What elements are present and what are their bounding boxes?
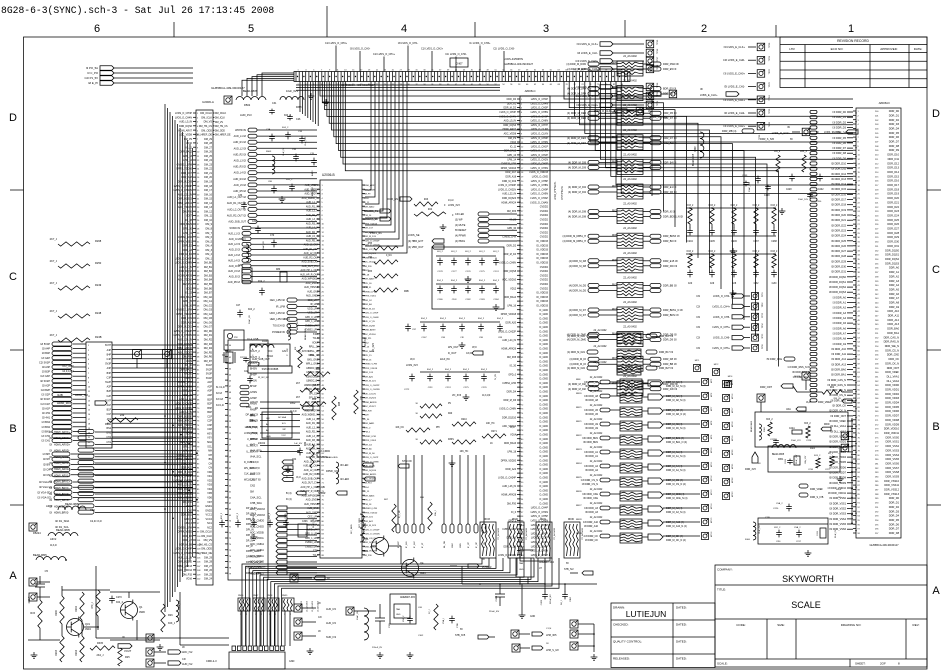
svg-text:I3I DDR_D10: I3I DDR_D10 (831, 163, 846, 166)
svg-text:LBMDC_B2: LBMDC_B2 (306, 376, 319, 378)
svg-text:DM_P28: DM_P28 (364, 410, 373, 412)
svg-text:63: 63 (229, 480, 231, 482)
svg-text:DDR_M_D4: DDR_M_D4 (503, 254, 516, 256)
svg-text:DDR_D13: DDR_D13 (887, 166, 899, 170)
svg-text:(4) MUTE: (4) MUTE (455, 224, 466, 227)
ground symbol bottom-left (31, 652, 38, 658)
svg-text:DDR_A2: DDR_A2 (889, 274, 900, 278)
DDR address resistor network head rows (567, 329, 673, 375)
svg-text:DDR_A11: DDR_A11 (888, 314, 900, 318)
svg-text:DDR_DQS23: DDR_DQS23 (364, 253, 377, 255)
svg-text:MC4: MC4 (728, 376, 733, 378)
svg-text:BEAD-0805: BEAD-0805 (326, 456, 338, 459)
svg-text:DDR_M_A1_N (4): DDR_M_A1_N (4) (666, 455, 686, 458)
LED MUTE flag list (448, 199, 517, 243)
svg-text:LVDS_O_CH6N: LVDS_O_CH6N (499, 263, 516, 265)
svg-text:8: 8 (88, 377, 89, 379)
svg-text:C306: C306 (302, 521, 308, 523)
svg-text:I3,4I: I3,4I (510, 427, 515, 429)
regulator U7 AME8907-1K2 (516, 550, 555, 584)
svg-text:K04_2: K04_2 (479, 280, 486, 282)
svg-text:C182: C182 (465, 299, 471, 301)
svg-text:AUD_L2_OUT I2I: AUD_L2_OUT I2I (227, 208, 246, 211)
svg-text:DDR_DQS25: DDR_DQS25 (364, 398, 377, 400)
I2C labels SDA SCL (55, 519, 102, 529)
svg-text:62: 62 (534, 84, 536, 86)
svg-text:DDR_A20: DDR_A20 (364, 375, 374, 378)
svg-text:C275: C275 (463, 387, 469, 389)
svg-text:DDR_VDD5: DDR_VDD5 (885, 405, 899, 409)
svg-text:DDR_VSS11: DDR_VSS11 (884, 483, 899, 487)
svg-text:BN2: BN2 (107, 428, 112, 430)
svg-text:DDR_D5 I3I: DDR_D5 I3I (663, 93, 677, 96)
LVDS_E net flag rows group 1 (575, 42, 644, 107)
svg-text:DDR_M_A3 (4): DDR_M_A3 (4) (666, 381, 683, 384)
svg-text:B2P: B2P (207, 403, 212, 406)
svg-text:C2I0: C2I0 (772, 283, 778, 285)
svg-text:17: 17 (360, 70, 362, 72)
svg-text:I3I DDR_A12: I3I DDR_A12 (831, 358, 846, 361)
svg-text:DDR_DW0 I3I: DDR_DW0 I3I (663, 63, 679, 66)
svg-text:DDR_M_D4: DDR_M_D4 (364, 308, 376, 310)
svg-text:19: 19 (88, 428, 90, 430)
svg-text:C3I DDR_A10: C3I DDR_A10 (583, 521, 599, 524)
svg-text:DDR_M_A4 (4): DDR_M_A4 (4) (666, 465, 683, 468)
bypass caps row B (436, 280, 500, 310)
svg-text:DDR_M_BA1_N (4): DDR_M_BA1_N (4) (666, 441, 687, 444)
svg-text:BEAD-0805: BEAD-0805 (56, 528, 70, 532)
svg-text:GND: GND (396, 614, 401, 616)
svg-text:C2I2: C2I2 (754, 283, 760, 285)
svg-text:DM_29: DM_29 (204, 556, 213, 559)
svg-text:IF_2P: IF_2P (468, 542, 470, 548)
svg-text:DM_B4: DM_B4 (204, 279, 213, 282)
svg-text:10K_HC: 10K_HC (460, 451, 469, 453)
bus lines below CN07 (296, 85, 500, 90)
svg-text:I3I DDR_D30: I3I DDR_D30 (831, 266, 846, 269)
wires bottom-left amplifier (28, 586, 160, 640)
svg-text:LVDS_O_CH4N: LVDS_O_CH4N (531, 102, 549, 105)
svg-text:DM_B6: DM_B6 (204, 287, 213, 290)
svg-text:DM_R5: DM_R5 (204, 351, 213, 354)
svg-text:RN24: RN24 (576, 463, 582, 465)
svg-text:K0I_2: K0I_2 (774, 150, 781, 153)
svg-text:56: 56 (229, 439, 231, 441)
svg-text:I3I DLL_VAA1: I3I DLL_VAA1 (830, 425, 846, 428)
svg-text:13: 13 (88, 400, 90, 402)
svg-text:22_A2-0402: 22_A2-0402 (593, 329, 607, 332)
svg-text:DM_15: DM_15 (204, 198, 213, 201)
svg-text:STB_IV2: STB_IV2 (564, 568, 574, 571)
svg-text:DDR_S_IVB: DDR_S_IVB (760, 138, 774, 141)
svg-text:DDR_M_D19: DDR_M_D19 (364, 236, 377, 238)
svg-text:DDR_BA12: DDR_BA12 (504, 150, 517, 153)
svg-text:AUD_IV2: AUD_IV2 (326, 608, 337, 611)
svg-text:LVDS_O_GND: LVDS_O_GND (532, 176, 548, 179)
svg-text:DDR_BB I3I: DDR_BB I3I (663, 363, 677, 366)
svg-text:RN38: RN38 (267, 595, 273, 597)
svg-text:22_A2-0402: 22_A2-0402 (590, 474, 603, 477)
ferrite bead FB39 standby (351, 514, 367, 542)
svg-text:10_A2-0402: 10_A2-0402 (311, 600, 314, 612)
wire bus left of U2006-A (165, 104, 193, 612)
svg-text:DDR_DQS2: DDR_DQS2 (885, 257, 899, 261)
svg-text:IO_30: IO_30 (185, 364, 192, 367)
svg-text:RPLL_12: RPLL_12 (309, 347, 319, 349)
svg-text:D_GND: D_GND (539, 408, 548, 411)
svg-text:DM_G1: DM_G1 (204, 300, 213, 303)
svg-text:C3I: C3I (696, 305, 700, 308)
svg-text:C28: C28 (732, 283, 737, 285)
svg-text:DDR_D8: DDR_D8 (889, 531, 900, 535)
svg-text:I2I MH: I2I MH (43, 453, 51, 456)
svg-text:10uF_6V3: 10uF_6V3 (286, 89, 299, 93)
svg-text:C3I LVDS_E_CH0-: C3I LVDS_E_CH0- (723, 58, 745, 62)
svg-text:MPLL_12: MPLL_12 (309, 351, 320, 353)
svg-text:K03_2: K03_2 (731, 205, 738, 207)
svg-text:I2I A1P: I2I A1P (42, 407, 50, 410)
svg-text:DDR_CS_N: DDR_CS_N (885, 348, 899, 352)
svg-text:FB39: FB39 (365, 522, 367, 528)
svg-text:DDR_A1: DDR_A1 (889, 270, 900, 274)
svg-text:I3I DDR_D0: I3I DDR_D0 (833, 111, 847, 114)
svg-text:R_J_HC: R_J_HC (399, 510, 401, 518)
svg-text:MC13: MC13 (711, 489, 713, 495)
svg-text:I3I DDR_A13: I3I DDR_A13 (831, 363, 846, 366)
svg-text:O_GND: O_GND (539, 446, 548, 449)
svg-text:I3I: I3I (49, 512, 52, 515)
svg-text:DDR_BD53 I3I: DDR_BD53 I3I (663, 235, 680, 238)
bead FB8 row (50, 537, 57, 547)
svg-text:2K7_J: 2K7_J (50, 333, 58, 337)
svg-text:I3I DDR_D14: I3I DDR_D14 (831, 183, 846, 186)
svg-text:DM_R0: DM_R0 (204, 330, 213, 333)
resistor R15 (30, 600, 42, 628)
svg-text:C3I: C3I (696, 337, 700, 340)
svg-text:VOUT: VOUT (124, 649, 132, 653)
svg-text:O_GND: O_GND (539, 455, 548, 458)
svg-text:AUD_SUB_OUT: AUD_SUB_OUT (302, 261, 320, 264)
svg-text:APPROVED:: APPROVED: (880, 47, 898, 51)
svg-text:GND: GND (289, 660, 295, 663)
svg-text:IF_IN2: IF_IN2 (414, 541, 416, 548)
svg-text:DPMX_IV2: DPMX_IV2 (326, 470, 338, 473)
I/O_3V3 flag mid (452, 394, 491, 397)
svg-text:DDR_D0: DDR_D0 (889, 496, 900, 500)
test point TP12 (163, 350, 172, 369)
output flag column D_OUT group (244, 460, 293, 481)
svg-text:AUD_L24_IN: AUD_L24_IN (364, 392, 377, 395)
svg-text:DPRX_VDD20: DPRX_VDD20 (501, 460, 517, 462)
svg-text:DDR_D12: DDR_D12 (887, 161, 899, 165)
svg-text:O_GND: O_GND (539, 472, 548, 475)
svg-text:DDR_D24: DDR_D24 (887, 214, 899, 218)
svg-text:LVDS_O_CH6+: LVDS_O_CH6+ (712, 347, 730, 350)
svg-text:DDR_A18: DDR_A18 (181, 176, 192, 179)
svg-text:ADC_VDD8: ADC_VDD8 (179, 134, 192, 137)
svg-text:22_A2-0402: 22_A2-0402 (590, 460, 603, 463)
svg-text:R268: R268 (95, 239, 102, 243)
svg-text:DDR_D27: DDR_D27 (887, 227, 899, 231)
svg-text:DDR_D3I I3I: DDR_D3I I3I (663, 388, 677, 391)
svg-text:C3P: C3P (207, 424, 212, 427)
svg-text:BEAD-0805: BEAD-0805 (304, 328, 307, 340)
svg-text:LPM_14: LPM_14 (364, 215, 373, 217)
svg-text:I3I DDR_DQS0: I3I DDR_DQS0 (829, 276, 847, 279)
svg-text:AUD_L4 I2I: AUD_L4 I2I (228, 259, 240, 262)
svg-text:DM_G3: DM_G3 (204, 309, 213, 312)
svg-text:(4) DDR_M_DE5: (4) DDR_M_DE5 (567, 117, 587, 120)
svg-text:48: 48 (229, 392, 231, 394)
svg-text:(4) PPWR: (4) PPWR (455, 235, 466, 238)
svg-text:DDR_DQS6: DDR_DQS6 (503, 125, 516, 127)
svg-text:HDMI_ARX24: HDMI_ARX24 (501, 201, 516, 204)
svg-text:52: 52 (229, 415, 231, 417)
capacitor C2B3 (561, 584, 572, 605)
svg-text:DM_8: DM_8 (205, 228, 212, 231)
pull resistor grid R9 R20 (395, 403, 518, 466)
svg-text:I2I CH1: I2I CH1 (42, 440, 51, 443)
svg-text:I3I DLL_VAA2: I3I DLL_VAA2 (830, 430, 846, 433)
svg-text:I3I DDR_VDD1: I3I DDR_VDD1 (829, 441, 847, 444)
svg-text:LVDS_O_CH4N: LVDS_O_CH4N (499, 116, 516, 118)
svg-text:MC18: MC18 (732, 421, 734, 427)
svg-text:LVDS_O_CH4+: LVDS_O_CH4+ (712, 305, 730, 308)
svg-text:70: 70 (229, 521, 231, 523)
svg-text:MC19: MC19 (732, 435, 734, 441)
resistor R04 (105, 413, 138, 426)
svg-text:22uF_10V: 22uF_10V (796, 454, 798, 464)
svg-text:C: C (9, 271, 17, 283)
svg-text:61 C1,4I: 61 C1,4I (216, 387, 225, 389)
svg-text:CH: CH (208, 462, 212, 465)
svg-text:A2P: A2P (107, 386, 112, 389)
svg-text:C3I DDR_RNS_N I3I: C3I DDR_RNS_N I3I (788, 366, 811, 369)
svg-text:I3I: I3I (318, 631, 321, 633)
svg-text:DDR_D5 I3I: DDR_D5 I3I (663, 112, 677, 115)
svg-text:AUD_L1 I2I: AUD_L1 I2I (228, 232, 240, 235)
svg-text:I3I DDR_A4: I3I DDR_A4 (833, 317, 847, 320)
svg-text:C3,6I: C3,6I (466, 353, 472, 355)
svg-text:I3I DDR_VSS2: I3I DDR_VSS2 (829, 508, 846, 511)
svg-text:BN1: BN1 (107, 433, 112, 435)
svg-text:I3I: I3I (838, 497, 841, 499)
svg-text:BH1P: BH1P (250, 385, 257, 388)
svg-text:21: 21 (376, 70, 378, 72)
svg-text:IR_LPM: IR_LPM (276, 305, 285, 308)
svg-text:DDR_D7: DDR_D7 (889, 140, 900, 144)
svg-text:D_GND: D_GND (539, 348, 548, 351)
svg-text:BEAD-0805: BEAD-0805 (750, 420, 753, 432)
svg-text:DDR_VSS13: DDR_VSS13 (884, 492, 899, 496)
svg-text:CVBS0_LPM: CVBS0_LPM (364, 291, 377, 293)
svg-text:DDR_DQS6: DDR_DQS6 (179, 125, 193, 128)
svg-text:DDR_M_A10_N (4): DDR_M_A10_N (4) (666, 525, 687, 528)
svg-text:K04_2: K04_2 (282, 127, 289, 129)
svg-text:C200: C200 (816, 201, 822, 203)
svg-text:LVDS_O_CH2N: LVDS_O_CH2N (531, 158, 549, 161)
svg-text:10_A2-0402: 10_A2-0402 (300, 600, 303, 612)
svg-text:AME8907-3K5: AME8907-3K5 (400, 596, 416, 599)
svg-text:I3I DDR_A0: I3I DDR_A0 (833, 296, 847, 299)
svg-text:DDR_D19: DDR_D19 (887, 192, 899, 196)
MC pads top pair (694, 360, 734, 388)
svg-text:C1I LVDS_O_CH2-: C1I LVDS_O_CH2- (445, 53, 467, 56)
svg-text:RN31: RN31 (540, 519, 547, 521)
svg-text:DDR_D2: DDR_D2 (507, 245, 517, 247)
svg-text:DM_6: DM_6 (205, 236, 212, 239)
svg-text:I3I DDR_D11: I3I DDR_D11 (831, 168, 846, 171)
svg-text:C3I: C3I (696, 347, 700, 350)
svg-text:GPD_0: GPD_0 (184, 373, 193, 376)
STB_IV2 output flag (564, 563, 593, 575)
svg-text:C236: C236 (808, 469, 814, 471)
svg-text:I3I DDR_A11: I3I DDR_A11 (831, 353, 846, 356)
svg-text:C2I C1P: C2I C1P (41, 403, 51, 406)
svg-text:CVDD2: CVDD2 (540, 283, 549, 286)
svg-text:MC23: MC23 (794, 376, 801, 378)
svg-text:DDR_A8: DDR_A8 (889, 301, 900, 305)
svg-text:DM_14: DM_14 (204, 202, 213, 205)
svg-text:COMPANY:: COMPANY: (717, 568, 733, 572)
svg-text:DDR_D8: DDR_D8 (889, 144, 900, 148)
svg-text:A3V3: A3V3 (46, 504, 53, 508)
svg-text:I3I DDR_DQS1: I3I DDR_DQS1 (829, 281, 847, 284)
svg-text:I3,AI: I3,AI (806, 401, 811, 404)
svg-text:LPM_31: LPM_31 (183, 232, 193, 235)
svg-text:11: 11 (88, 391, 90, 393)
svg-text:AUD_L2_IN: AUD_L2_IN (306, 426, 319, 429)
svg-text:CVDD2: CVDD2 (540, 236, 549, 239)
svg-text:DDR_DQS8: DDR_DQS8 (503, 271, 516, 273)
svg-text:I3I DDR_D12: I3I DDR_D12 (831, 173, 846, 176)
decoupling caps row 1 (686, 205, 778, 254)
svg-text:TP15: TP15 (657, 39, 659, 45)
svg-text:77: 77 (229, 562, 231, 564)
svg-text:I5I DDR_CKE: I5I DDR_CKE (767, 358, 783, 361)
svg-text:2K7_J: 2K7_J (50, 259, 58, 263)
decoupling caps cluster top (742, 150, 824, 214)
svg-text:DM_G5: DM_G5 (204, 317, 213, 320)
svg-text:C3I: C3I (696, 316, 700, 319)
svg-text:7: 7 (321, 70, 322, 72)
test point TP11 (133, 350, 142, 369)
svg-text:DM_R1: DM_R1 (204, 334, 213, 337)
svg-text:GND: GND (530, 616, 535, 618)
svg-text:CVDD2: CVDD2 (540, 219, 549, 222)
svg-text:DDR_B4 I3I: DDR_B4 I3I (663, 142, 677, 145)
svg-text:LVDS_O_CH23N: LVDS_O_CH23N (174, 334, 193, 337)
resistor R202 (75, 592, 84, 620)
svg-text:9: 9 (329, 70, 330, 72)
svg-text:CH2: CH2 (106, 437, 111, 439)
resistor R200 (55, 596, 64, 624)
svg-text:22_A2-0402: 22_A2-0402 (590, 530, 603, 533)
svg-text:C: C (932, 264, 940, 276)
svg-text:K04_2: K04_2 (497, 318, 504, 320)
svg-text:DM_4: DM_4 (205, 245, 212, 248)
svg-text:I2I G4P: I2I G4P (42, 357, 51, 360)
svg-text:CEC_LPM: CEC_LPM (308, 517, 319, 519)
svg-text:DDR_MB (4): DDR_MB (4) (722, 130, 736, 133)
connector U2006-A (196, 86, 245, 585)
svg-text:76: 76 (229, 556, 231, 558)
svg-text:LPM_16: LPM_16 (507, 306, 516, 308)
svg-text:YO_A2-0402: YO_A2-0402 (525, 527, 528, 540)
svg-text:I3I DDR_D18: I3I DDR_D18 (831, 204, 846, 207)
ground U7 rail (519, 584, 536, 618)
svg-text:IO_15: IO_15 (364, 491, 371, 493)
svg-text:DM_ICLK: DM_ICLK (215, 118, 225, 120)
svg-text:10K_HC: 10K_HC (486, 423, 495, 425)
svg-text:DDR_RAS_N: DDR_RAS_N (884, 340, 900, 344)
svg-text:MC16: MC16 (732, 393, 734, 399)
svg-text:DM_G2: DM_G2 (204, 304, 213, 307)
svg-text:LPM_3K5: LPM_3K5 (546, 634, 557, 637)
svg-text:(4) DDR_M_DB51_H: (4) DDR_M_DB51_H (563, 240, 587, 243)
svg-text:RN36: RN36 (238, 595, 244, 597)
svg-text:I3I DDR_A9: I3I DDR_A9 (585, 427, 598, 430)
svg-text:10uF_6V: 10uF_6V (263, 241, 265, 250)
svg-text:OCR_EN: OCR_EN (387, 197, 398, 201)
capacitor C270 (109, 596, 123, 604)
svg-text:LVDS_O_CH21N: LVDS_O_CH21N (174, 189, 193, 192)
svg-text:AUD_HPGND: AUD_HPGND (304, 286, 319, 289)
svg-text:AUD_L1_IN: AUD_L1_IN (306, 418, 319, 421)
svg-text:VD1: VD1 (207, 475, 212, 478)
svg-text:C2P: C2P (207, 420, 212, 423)
svg-text:K03_2: K03_2 (687, 251, 694, 253)
svg-text:18: 18 (88, 423, 90, 425)
svg-text:I2I BN1: I2I BN1 (42, 430, 51, 433)
svg-text:31: 31 (415, 70, 417, 72)
svg-text:DDR_VDD2: DDR_VDD2 (885, 392, 899, 396)
svg-text:K04_2: K04_2 (427, 369, 434, 371)
svg-text:C3I DDR_A8: C3I DDR_A8 (584, 381, 598, 384)
svg-text:C223: C223 (785, 458, 787, 464)
svg-text:33: 33 (423, 70, 425, 72)
svg-text:R200: R200 (55, 609, 58, 616)
LVDS_O_CLK flag row right (614, 88, 739, 98)
svg-text:DM_P30: DM_P30 (364, 555, 373, 557)
svg-text:I2I A2P: I2I A2P (42, 384, 50, 387)
svg-text:DDR_D4: DDR_D4 (889, 514, 900, 518)
svg-text:I3I LVDS_E_CH3+: I3I LVDS_E_CH3+ (576, 103, 598, 107)
power flag I/O_3V3 (62, 364, 74, 373)
svg-text:I/O_3V3: I/O_3V3 (372, 343, 375, 352)
svg-text:2K7: 2K7 (296, 383, 301, 385)
svg-text:VD27: VD27 (186, 215, 193, 218)
serial flash IC SST25VF080B (247, 338, 292, 373)
svg-text:BEAD-0805: BEAD-0805 (772, 453, 785, 456)
svg-text:DPI_IN: DPI_IN (246, 529, 254, 532)
svg-text:Q1: Q1 (139, 605, 143, 609)
svg-text:ADC_VDD10: ADC_VDD10 (502, 279, 516, 282)
svg-text:23uF_10V: 23uF_10V (798, 199, 809, 201)
svg-text:C184: C184 (493, 299, 499, 301)
svg-text:I3I DDR_CKE: I3I DDR_CKE (583, 497, 598, 500)
svg-text:A1P: A1P (207, 381, 212, 384)
svg-text:I3I DDR_VSS1: I3I DDR_VSS1 (829, 502, 846, 505)
svg-text:I3I DDR_CK: I3I DDR_CK (832, 405, 846, 408)
svg-text:10_A2-0402: 10_A2-0402 (306, 600, 309, 612)
svg-text:DDR_VSS5: DDR_VSS5 (886, 457, 900, 461)
svg-text:DM_27: DM_27 (204, 565, 213, 568)
svg-text:DDR_CK: DDR_CK (889, 357, 900, 361)
svg-text:AUD_L1_IN: AUD_L1_IN (306, 201, 319, 204)
svg-text:DRAWING NO:: DRAWING NO: (841, 623, 862, 627)
svg-text:DDR_M_CK_N (4): DDR_M_CK_N (4) (666, 539, 686, 542)
